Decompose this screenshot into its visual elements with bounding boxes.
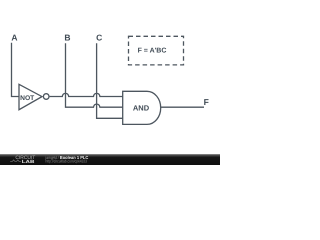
svg-text:AND: AND: [133, 103, 150, 112]
svg-text:A: A: [11, 32, 17, 42]
svg-text:C: C: [96, 33, 102, 43]
svg-text:B: B: [64, 32, 70, 42]
svg-text:NOT: NOT: [20, 95, 35, 102]
svg-text:F = A'BC: F = A'BC: [138, 48, 167, 55]
svg-text:http://circuitlab.com/cpk4323: http://circuitlab.com/cpk4323: [46, 158, 88, 163]
svg-text:LAB: LAB: [22, 159, 36, 164]
svg-text:F: F: [204, 97, 209, 107]
